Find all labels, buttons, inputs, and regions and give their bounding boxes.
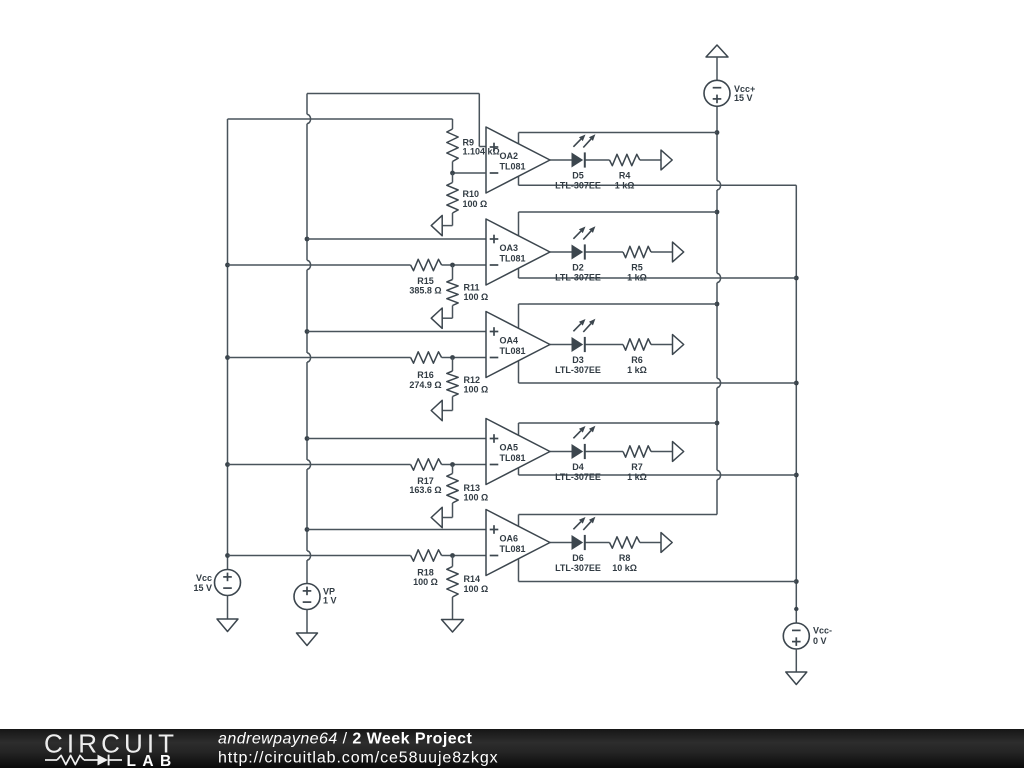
svg-text:LTL-307EE: LTL-307EE [555,563,601,573]
svg-text:1 V: 1 V [323,596,337,606]
svg-text:15 V: 15 V [734,93,753,103]
svg-text:OA6: OA6 [500,534,519,544]
svg-text:TL081: TL081 [500,453,526,463]
svg-text:100 Ω: 100 Ω [464,385,489,395]
svg-text:R15: R15 [417,276,434,286]
svg-text:LTL-307EE: LTL-307EE [555,365,601,375]
svg-text:0 V: 0 V [813,636,827,646]
svg-text:R11: R11 [464,283,480,293]
svg-text:163.6 Ω: 163.6 Ω [409,485,441,495]
svg-text:LTL-307EE: LTL-307EE [555,273,601,283]
svg-text:1.104 kΩ: 1.104 kΩ [463,147,500,157]
svg-text:100 Ω: 100 Ω [464,493,489,503]
svg-text:R14: R14 [464,574,481,584]
svg-text:Vcc: Vcc [196,573,212,583]
svg-text:andrewpayne64 / 2 Week Project: andrewpayne64 / 2 Week Project [218,731,472,748]
svg-text:R7: R7 [631,462,643,472]
svg-text:R10: R10 [463,189,480,199]
svg-text:R16: R16 [417,370,434,380]
svg-text:OA4: OA4 [500,336,519,346]
svg-text:D3: D3 [572,355,584,365]
svg-text:OA5: OA5 [500,443,519,453]
svg-text:LAB: LAB [127,753,178,768]
svg-text:1 kΩ: 1 kΩ [627,472,647,482]
svg-text:TL081: TL081 [500,162,526,172]
svg-text:R4: R4 [619,171,631,181]
svg-text:274.9 Ω: 274.9 Ω [409,380,441,390]
svg-text:TL081: TL081 [500,254,526,264]
svg-text:R13: R13 [464,483,481,493]
svg-text:LTL-307EE: LTL-307EE [555,181,601,191]
svg-text:D6: D6 [572,553,584,563]
svg-text:OA3: OA3 [500,243,519,253]
svg-text:D4: D4 [572,462,584,472]
svg-text:R5: R5 [631,263,643,273]
svg-text:D2: D2 [572,263,584,273]
svg-text:R6: R6 [631,355,643,365]
svg-text:R12: R12 [464,375,481,385]
svg-text:http://circuitlab.com/ce58uuje: http://circuitlab.com/ce58uuje8zkgx [218,750,499,767]
svg-text:TL081: TL081 [500,544,526,554]
svg-text:OA2: OA2 [500,151,519,161]
svg-text:R8: R8 [619,553,631,563]
svg-text:1 kΩ: 1 kΩ [615,181,635,191]
svg-text:10 kΩ: 10 kΩ [612,563,637,573]
svg-text:100 Ω: 100 Ω [464,292,489,302]
svg-text:D5: D5 [572,171,584,181]
svg-text:15 V: 15 V [193,583,212,593]
svg-text:100 Ω: 100 Ω [464,584,489,594]
svg-text:Vcc-: Vcc- [813,626,832,636]
svg-text:100 Ω: 100 Ω [413,577,438,587]
svg-text:100 Ω: 100 Ω [463,199,488,209]
svg-text:385.8 Ω: 385.8 Ω [409,286,441,296]
svg-text:1 kΩ: 1 kΩ [627,365,647,375]
svg-text:LTL-307EE: LTL-307EE [555,472,601,482]
svg-text:TL081: TL081 [500,346,526,356]
svg-text:1 kΩ: 1 kΩ [627,273,647,283]
